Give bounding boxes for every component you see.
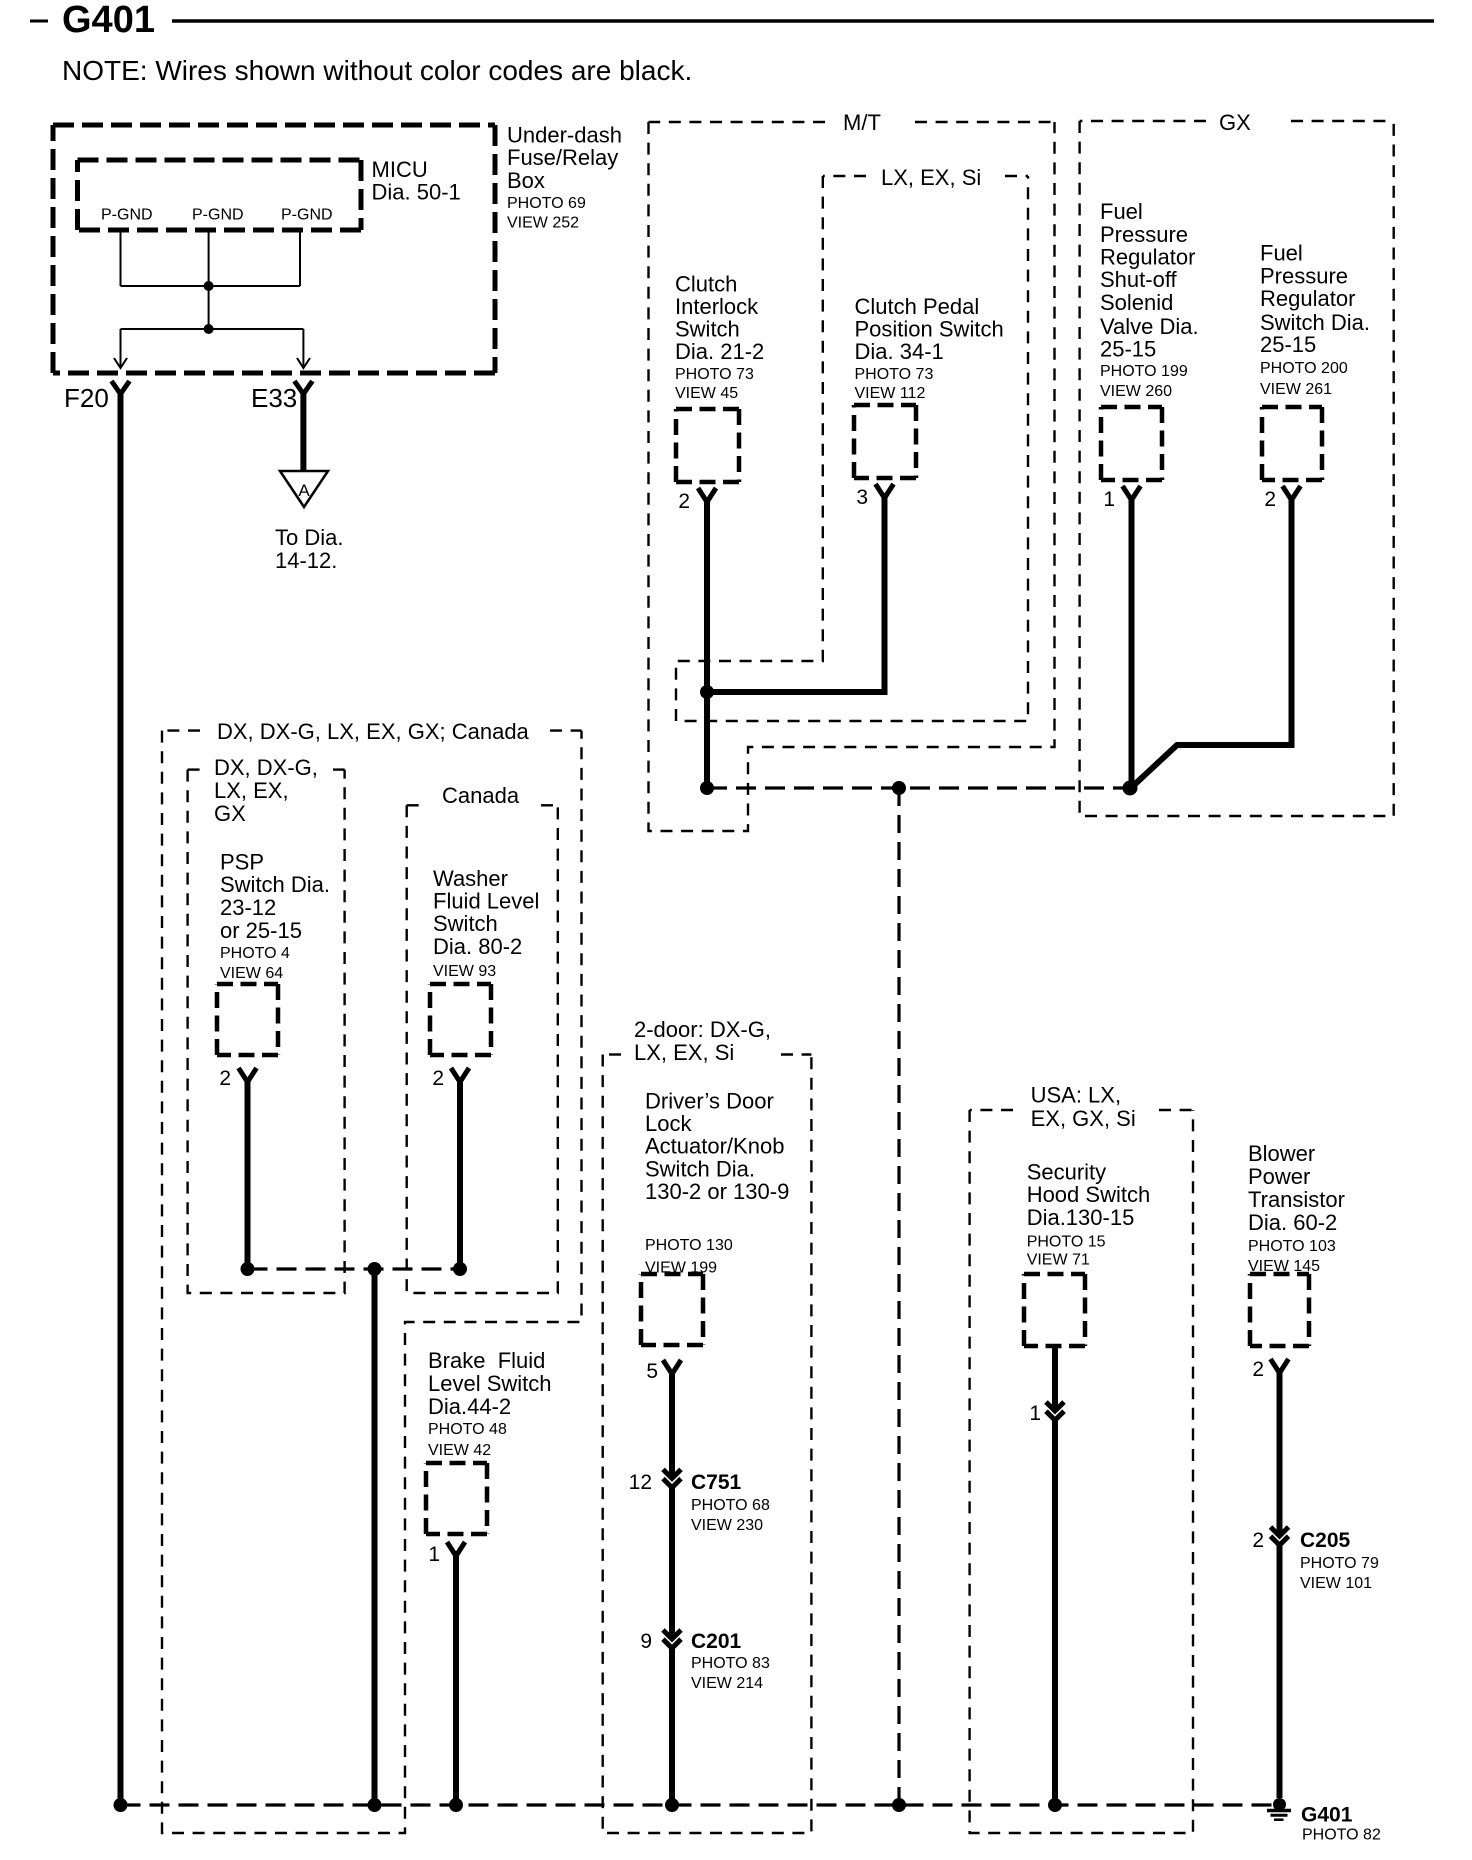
svg-text:USA: LX,: USA: LX,: [1031, 1082, 1121, 1107]
connector C205 label: [1300, 1529, 1379, 1592]
washer fluid level switch label: [433, 866, 539, 980]
svg-text:or 25-15: or 25-15: [220, 918, 302, 943]
svg-text:Driver’s Door: Driver’s Door: [645, 1088, 774, 1113]
To Dia. 14-12 label: [275, 525, 343, 573]
wire to F20 with arrowhead: [114, 329, 127, 368]
svg-text:VIEW 261: VIEW 261: [1260, 381, 1332, 398]
wire E33 stub: [300, 392, 306, 471]
wire washer switch: [457, 1080, 463, 1269]
svg-text:Clutch: Clutch: [675, 271, 737, 296]
terminal F20 Y connector: [112, 381, 130, 394]
connector C201 chevrons: [663, 1630, 681, 1648]
svg-text:Dia.130-15: Dia.130-15: [1027, 1205, 1135, 1230]
PSP switch box: [217, 984, 278, 1055]
svg-text:Fluid Level: Fluid Level: [433, 889, 539, 914]
wire from P-GND pin 1: [120, 230, 122, 286]
M/T variant box: [649, 122, 1055, 831]
under-dash fuse/relay box: [53, 125, 495, 373]
wire solenoid valve: [1129, 498, 1135, 783]
clutch interlock pin Y connector: [698, 488, 716, 502]
connector C751 label: [691, 1471, 770, 1534]
brake fluid level switch box: [426, 1463, 487, 1534]
svg-text:Regulator: Regulator: [1100, 245, 1195, 270]
title tick: [30, 20, 48, 23]
svg-text:GX: GX: [214, 801, 246, 826]
junction dot GX wires: [1123, 781, 1138, 796]
svg-text:MICU: MICU: [372, 157, 428, 182]
svg-text:PHOTO 48: PHOTO 48: [428, 1421, 507, 1438]
junction dot down-wire bus: [892, 1798, 906, 1812]
svg-text:Box: Box: [507, 168, 545, 193]
svg-text:Washer: Washer: [433, 866, 508, 891]
blower power transistor label: [1248, 1141, 1345, 1275]
svg-text:2-door: DX-G,: 2-door: DX-G,: [634, 1017, 771, 1042]
wire blower upper: [1277, 1371, 1283, 1536]
svg-text:PHOTO 130: PHOTO 130: [645, 1237, 733, 1254]
svg-text:C205: C205: [1300, 1529, 1351, 1552]
driver's door lock box: [641, 1274, 703, 1345]
wire clutch pedal position switch: [707, 496, 885, 692]
svg-text:Switch: Switch: [675, 317, 740, 342]
MICU connector box: [78, 160, 362, 230]
bus wire M/T to GX: [707, 786, 1130, 789]
svg-text:VIEW 42: VIEW 42: [428, 1442, 491, 1459]
svg-text:Transistor: Transistor: [1248, 1187, 1345, 1212]
PSP switch label: [220, 850, 330, 982]
svg-text:VIEW 101: VIEW 101: [1300, 1575, 1372, 1592]
junction dot security bus: [1048, 1798, 1062, 1812]
svg-text:VIEW 71: VIEW 71: [1027, 1252, 1090, 1269]
svg-text:PHOTO 4: PHOTO 4: [220, 945, 290, 962]
wire security hood switch lower: [1052, 1420, 1058, 1805]
security hood switch box: [1024, 1274, 1085, 1346]
svg-text:Lock: Lock: [645, 1111, 692, 1136]
svg-text:Dia. 60-2: Dia. 60-2: [1248, 1210, 1337, 1235]
svg-text:Pressure: Pressure: [1100, 222, 1188, 247]
svg-text:9: 9: [640, 1630, 652, 1653]
svg-text:Dia. 21-2: Dia. 21-2: [675, 339, 764, 364]
clutch pedal position switch box: [854, 405, 916, 478]
svg-text:Dia.44-2: Dia.44-2: [428, 1394, 511, 1419]
svg-text:E33: E33: [251, 383, 297, 413]
inner DX box: [188, 770, 345, 1293]
wire door lock lower: [669, 1648, 675, 1805]
wire door lock middle: [669, 1488, 675, 1639]
svg-text:Switch Dia.: Switch Dia.: [220, 872, 330, 897]
LX,EX,Si variant box: [676, 176, 1028, 721]
svg-text:2: 2: [1264, 488, 1276, 511]
security hood switch label: [1027, 1160, 1151, 1269]
svg-text:VIEW 214: VIEW 214: [691, 1675, 763, 1692]
svg-text:14-12.: 14-12.: [275, 548, 337, 573]
svg-text:Switch: Switch: [433, 911, 498, 936]
svg-text:25-15: 25-15: [1260, 332, 1316, 357]
junction dot upper: [204, 281, 214, 291]
wire from P-GND pin 2: [208, 230, 210, 329]
fuel pressure regulator shut-off solenoid valve label: [1100, 199, 1199, 400]
svg-text:Dia. 80-2: Dia. 80-2: [433, 934, 522, 959]
svg-text:P-GND: P-GND: [281, 207, 333, 224]
svg-text:Dia. 50-1: Dia. 50-1: [372, 180, 461, 205]
svg-text:Dia. 34-1: Dia. 34-1: [855, 339, 944, 364]
svg-text:25-15: 25-15: [1100, 337, 1156, 362]
svg-text:2: 2: [678, 490, 690, 513]
solenoid valve pin Y connector: [1123, 486, 1141, 500]
svg-text:M/T: M/T: [843, 110, 881, 135]
bus wire down to ground bus: [897, 788, 900, 1805]
svg-text:LX, EX,: LX, EX,: [214, 778, 289, 803]
clutch interlock switch box: [676, 409, 739, 482]
svg-text:Regulator: Regulator: [1260, 286, 1355, 311]
svg-text:PHOTO 69: PHOTO 69: [507, 195, 586, 212]
USA variant box: [970, 1110, 1193, 1833]
washer pin Y connector: [451, 1068, 469, 1082]
blower power transistor box: [1250, 1274, 1309, 1346]
clutch pedal position switch label: [855, 294, 1004, 402]
svg-text:VIEW 260: VIEW 260: [1100, 383, 1172, 400]
wire middle ground run: [372, 1269, 378, 1805]
title rule: [172, 19, 1434, 23]
svg-text:VIEW 45: VIEW 45: [675, 385, 738, 402]
2-door label: [634, 1017, 771, 1065]
washer fluid level switch box: [430, 984, 491, 1055]
svg-text:Power: Power: [1248, 1164, 1310, 1189]
svg-text:Canada: Canada: [442, 783, 520, 808]
svg-text:VIEW 230: VIEW 230: [691, 1517, 763, 1534]
junction dot M/T to bus: [700, 781, 714, 795]
svg-text:G401: G401: [1301, 1804, 1353, 1827]
svg-text:Position Switch: Position Switch: [855, 317, 1004, 342]
connector C751 chevrons: [663, 1469, 681, 1487]
svg-text:VIEW 112: VIEW 112: [855, 385, 926, 402]
svg-text:3: 3: [856, 486, 868, 509]
junction dot brake bus: [449, 1798, 463, 1812]
wire from P-GND pin 3: [299, 230, 301, 286]
svg-text:G401: G401: [62, 0, 155, 41]
PSP pin Y connector: [239, 1068, 257, 1082]
wire brake fluid switch: [453, 1554, 459, 1805]
svg-text:VIEW 64: VIEW 64: [220, 965, 283, 982]
junction dot lower: [204, 324, 214, 334]
svg-text:PHOTO 73: PHOTO 73: [675, 366, 754, 383]
svg-text:Under-dash: Under-dash: [507, 123, 622, 148]
svg-text:A: A: [298, 481, 310, 500]
connector C205 chevrons: [1271, 1527, 1289, 1545]
svg-text:PHOTO 79: PHOTO 79: [1300, 1555, 1379, 1572]
ground G401 label: [1301, 1804, 1381, 1844]
svg-text:2: 2: [432, 1067, 444, 1090]
junction dot middle bus: [368, 1798, 382, 1812]
GX variant box: [1080, 121, 1394, 816]
svg-text:DX, DX-G, LX, EX, GX; Canada: DX, DX-G, LX, EX, GX; Canada: [217, 719, 530, 744]
svg-text:DX, DX-G,: DX, DX-G,: [214, 755, 318, 780]
bus wire PSP-washer junction: [248, 1267, 461, 1270]
svg-text:VIEW 252: VIEW 252: [507, 215, 579, 232]
driver's door lock actuator label: [645, 1088, 789, 1276]
svg-text:Fuel: Fuel: [1260, 240, 1303, 265]
wire to E33 with arrowhead: [297, 329, 310, 368]
svg-text:PHOTO 200: PHOTO 200: [1260, 360, 1348, 377]
fuel pressure regulator solenoid valve box: [1101, 407, 1162, 480]
svg-text:Actuator/Knob: Actuator/Knob: [645, 1134, 784, 1159]
junction dot F20 bus: [114, 1798, 128, 1812]
wire clutch interlock switch: [704, 500, 710, 788]
svg-text:VIEW 93: VIEW 93: [433, 963, 496, 980]
blower pin Y connector: [1271, 1359, 1289, 1373]
off-page triangle A: [280, 471, 328, 507]
wire PSP switch: [245, 1080, 251, 1269]
junction dot PSP: [241, 1262, 255, 1276]
svg-text:Blower: Blower: [1248, 1141, 1315, 1166]
2-door variant box: [603, 1055, 812, 1834]
wire fuel pressure regulator switch: [1133, 498, 1292, 786]
svg-text:Hood Switch: Hood Switch: [1027, 1182, 1151, 1207]
under-dash fuse/relay box label: [507, 123, 622, 232]
fuel pressure regulator switch label: [1260, 240, 1370, 398]
svg-text:PSP: PSP: [220, 850, 264, 875]
svg-text:Switch Dia.: Switch Dia.: [645, 1156, 755, 1181]
svg-text:LX, EX, Si: LX, EX, Si: [881, 165, 981, 190]
svg-text:To Dia.: To Dia.: [275, 525, 343, 550]
door lock pin Y connector: [663, 1360, 681, 1374]
svg-text:Security: Security: [1027, 1160, 1106, 1185]
svg-text:F20: F20: [64, 383, 109, 413]
svg-text:PHOTO 103: PHOTO 103: [1248, 1238, 1336, 1255]
svg-text:P-GND: P-GND: [192, 207, 244, 224]
wire security hood switch upper: [1052, 1346, 1058, 1411]
USA label: [1031, 1082, 1136, 1131]
svg-text:12: 12: [629, 1471, 652, 1494]
svg-text:GX: GX: [1219, 110, 1251, 135]
svg-text:C751: C751: [691, 1471, 742, 1494]
svg-text:Brake Fluid: Brake Fluid: [428, 1348, 545, 1373]
clutch pedal pin Y connector: [876, 484, 894, 498]
outer DX/Canada variant box: [162, 731, 582, 1833]
svg-text:PHOTO 15: PHOTO 15: [1027, 1233, 1106, 1250]
brake fluid level switch label: [428, 1348, 552, 1459]
wire blower lower: [1277, 1545, 1283, 1798]
svg-text:Solenid: Solenid: [1100, 290, 1173, 315]
svg-text:Interlock: Interlock: [675, 294, 759, 319]
clutch interlock switch label: [675, 271, 764, 402]
wire horizontal tie lower: [121, 328, 304, 330]
connector chevrons security pin 1: [1046, 1402, 1064, 1420]
ground symbol G401: [1267, 1798, 1291, 1820]
svg-text:EX, GX, Si: EX, GX, Si: [1031, 1106, 1136, 1131]
svg-text:Valve Dia.: Valve Dia.: [1100, 314, 1199, 339]
wire F20 main ground run: [118, 392, 124, 1805]
junction dot door lock bus: [665, 1798, 679, 1812]
svg-text:5: 5: [646, 1360, 658, 1383]
svg-text:Level Switch: Level Switch: [428, 1371, 552, 1396]
svg-text:130-2 or 130-9: 130-2 or 130-9: [645, 1179, 789, 1204]
svg-text:Clutch Pedal: Clutch Pedal: [855, 294, 980, 319]
svg-text:2: 2: [1252, 1358, 1264, 1381]
svg-text:1: 1: [1103, 488, 1115, 511]
svg-text:NOTE: Wires shown without colo: NOTE: Wires shown without color codes ar…: [62, 55, 692, 86]
svg-text:PHOTO 199: PHOTO 199: [1100, 363, 1188, 380]
fuel pressure regulator switch box: [1262, 407, 1322, 480]
inner DX label: [214, 755, 318, 826]
junction dot clutch wires: [700, 685, 714, 699]
junction dot bus to down-wire: [892, 781, 906, 795]
brake pin Y connector: [447, 1542, 465, 1556]
svg-text:2: 2: [1252, 1529, 1264, 1552]
svg-text:1: 1: [428, 1543, 440, 1566]
ground bus wire: [121, 1803, 1280, 1806]
svg-text:PHOTO 83: PHOTO 83: [691, 1655, 770, 1672]
wire door lock upper: [669, 1372, 675, 1478]
svg-text:P-GND: P-GND: [101, 207, 153, 224]
svg-text:LX, EX, Si: LX, EX, Si: [634, 1040, 734, 1065]
svg-text:PHOTO 73: PHOTO 73: [855, 366, 934, 383]
terminal E33 Y connector: [294, 381, 312, 394]
svg-text:Pressure: Pressure: [1260, 264, 1348, 289]
svg-text:Fuel: Fuel: [1100, 199, 1143, 224]
svg-text:Fuse/Relay: Fuse/Relay: [507, 145, 618, 170]
svg-text:23-12: 23-12: [220, 895, 276, 920]
svg-text:PHOTO 68: PHOTO 68: [691, 1497, 770, 1514]
junction dot middle: [368, 1262, 382, 1276]
junction dot washer: [453, 1262, 467, 1276]
wire horizontal tie upper: [121, 285, 301, 287]
Canada variant box: [407, 805, 558, 1293]
svg-text:2: 2: [219, 1067, 231, 1090]
fuel switch pin Y connector: [1283, 486, 1301, 500]
connector C201 label: [691, 1630, 770, 1692]
svg-text:Shut-off: Shut-off: [1100, 267, 1178, 292]
MICU label: [372, 157, 461, 205]
svg-text:1: 1: [1029, 1402, 1041, 1425]
svg-text:PHOTO 82: PHOTO 82: [1302, 1827, 1381, 1844]
svg-text:C201: C201: [691, 1630, 742, 1653]
